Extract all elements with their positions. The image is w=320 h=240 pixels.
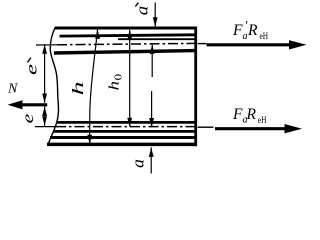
svg-text:h: h — [69, 81, 86, 95]
svg-text:eH: eH — [258, 116, 267, 126]
bottom reinforcement axis solid left extension — [35, 126, 56, 128]
dimension line a upper tail — [151, 91, 153, 127]
top rebar line 2 (right part) — [118, 38, 195, 40]
dimension line a lower tail — [150, 147, 152, 173]
top rebar line 1 — [60, 35, 195, 36]
label a' (rotated) — [132, 6, 151, 16]
svg-text:e: e — [20, 114, 37, 124]
arrowhead e down — [42, 116, 47, 126]
svg-text:h: h — [105, 81, 122, 90]
svg-text:0: 0 — [112, 74, 124, 81]
arrowhead h top — [95, 29, 100, 39]
label e (rotated) — [20, 114, 37, 124]
svg-text:a: a — [132, 6, 151, 16]
dimension line h (bows left) — [90, 29, 98, 143]
force arrow F'a ReH shaft — [207, 43, 292, 46]
force arrow Fa ReH shaft — [215, 127, 286, 130]
force N shaft — [21, 103, 47, 106]
top reinforcement axis dash-dot — [57, 43, 195, 44]
force arrow F'a ReH head — [289, 40, 307, 49]
beam wavy left break edge — [48, 28, 59, 146]
dimension line a' upper tail — [154, 3, 156, 27]
dimension line e — [44, 107, 46, 126]
bottom flange inner line — [57, 121, 195, 124]
label a (rotated) — [129, 159, 148, 168]
svg-text:e: e — [24, 64, 41, 75]
svg-text:N: N — [7, 82, 18, 97]
arrowhead e' down to N — [42, 94, 47, 104]
force arrow Fa ReH head — [285, 124, 303, 133]
prime of a' — [135, 3, 138, 7]
svg-text:a: a — [243, 31, 248, 42]
arrowhead h0 top — [127, 30, 132, 40]
top axis dash beyond right edge — [198, 43, 207, 45]
prime of e' — [27, 58, 31, 63]
svg-text:R: R — [246, 106, 257, 123]
force N arrowhead — [8, 100, 23, 109]
beam bottom edge — [47, 143, 197, 147]
arrowhead a' up to axis — [150, 45, 155, 55]
arrowhead a' down to top edge — [153, 17, 158, 27]
bottom rebar line 1 — [53, 130, 195, 133]
arrowhead e' up — [42, 44, 47, 54]
label h (rotated) — [69, 81, 86, 95]
bottom reinforcement axis dash-dot — [56, 126, 195, 128]
arrowhead h0 bottom — [127, 118, 132, 128]
bottom rebar line 2 — [50, 136, 195, 139]
dimension line e' — [44, 44, 46, 103]
arrowhead a up to bottom edge — [149, 147, 154, 157]
beam right edge — [194, 27, 197, 146]
arrowhead h bottom — [87, 135, 92, 145]
label h0 (rotated) — [105, 74, 124, 91]
top flange inner line — [54, 51, 195, 53]
label e' (rotated) — [24, 64, 41, 75]
dimension line a' lower tail — [151, 45, 153, 77]
beam top edge — [55, 27, 197, 30]
svg-text:eH: eH — [260, 32, 269, 42]
top reinforcement axis solid left extension — [36, 44, 57, 46]
svg-text:F: F — [232, 22, 243, 39]
svg-text:F: F — [232, 106, 243, 123]
svg-text:a: a — [129, 159, 148, 168]
svg-text:R: R — [247, 22, 258, 39]
bottom axis dash beyond right edge — [198, 126, 214, 128]
dimension line h0 — [129, 30, 131, 127]
arrowhead e up to N — [42, 107, 47, 117]
arrowhead a down to axis — [149, 118, 154, 128]
